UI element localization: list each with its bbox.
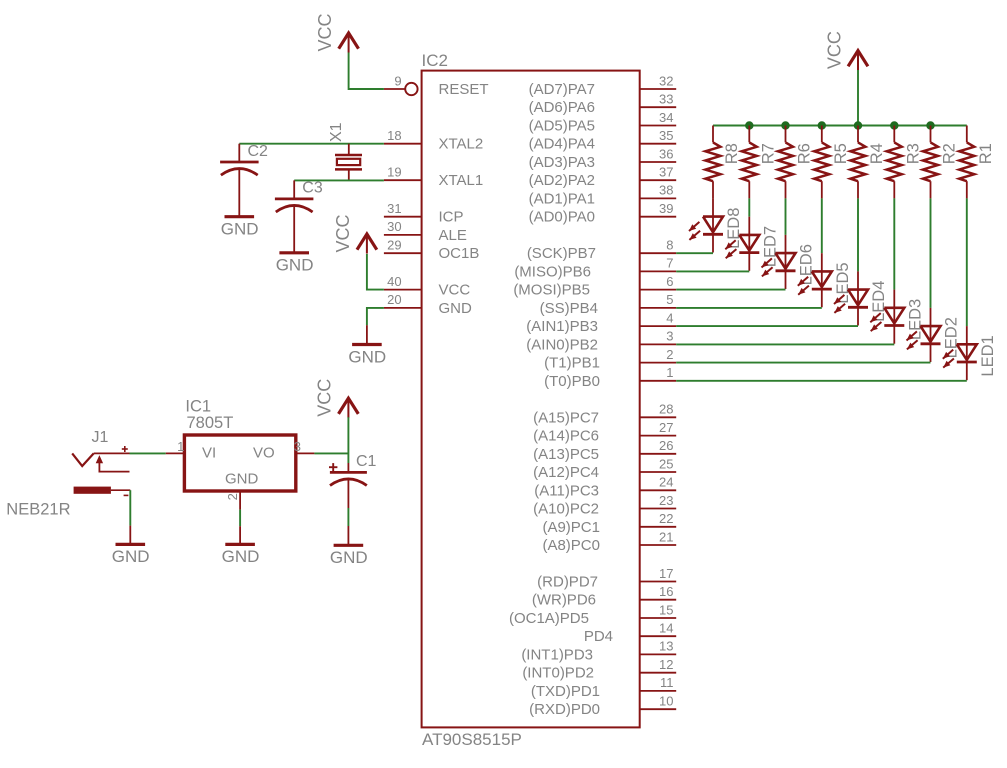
svg-text:(A13)PC5: (A13)PC5: [533, 446, 599, 463]
svg-text:16: 16: [659, 584, 673, 599]
svg-text:8: 8: [666, 238, 673, 253]
svg-text:VO: VO: [253, 444, 275, 461]
svg-text:(AD2)PA2: (AD2)PA2: [529, 172, 595, 189]
svg-text:AT90S8515P: AT90S8515P: [422, 730, 522, 749]
svg-text:X1: X1: [328, 122, 345, 142]
svg-text:NEB21R: NEB21R: [6, 501, 70, 519]
svg-text:(AD4)PA4: (AD4)PA4: [529, 136, 595, 153]
svg-text:GND: GND: [439, 300, 473, 317]
svg-text:VI: VI: [202, 444, 216, 461]
svg-text:23: 23: [659, 493, 673, 508]
svg-text:XTAL1: XTAL1: [439, 172, 484, 189]
svg-text:RESET: RESET: [439, 81, 489, 98]
svg-text:2: 2: [666, 347, 673, 362]
svg-text:15: 15: [659, 602, 673, 617]
svg-text:R5: R5: [832, 143, 850, 164]
svg-text:22: 22: [659, 511, 673, 526]
svg-text:1: 1: [666, 365, 673, 380]
svg-text:R8: R8: [723, 143, 741, 164]
svg-text:ICP: ICP: [439, 209, 464, 226]
svg-text:40: 40: [387, 274, 401, 289]
svg-text:28: 28: [659, 402, 673, 417]
svg-text:OC1B: OC1B: [439, 245, 480, 262]
svg-text:3: 3: [294, 439, 301, 454]
svg-text:12: 12: [659, 657, 673, 672]
svg-text:GND: GND: [225, 470, 259, 487]
svg-text:(AD0)PA0: (AD0)PA0: [529, 209, 595, 226]
svg-text:C1: C1: [356, 453, 377, 470]
svg-text:(A10)PC2: (A10)PC2: [533, 501, 599, 518]
svg-text:(A9)PC1: (A9)PC1: [542, 519, 600, 536]
svg-text:(SS)PB4: (SS)PB4: [540, 300, 598, 317]
svg-text:(AIN1)PB3: (AIN1)PB3: [526, 318, 598, 335]
svg-text:(SCK)PB7: (SCK)PB7: [527, 245, 596, 262]
svg-text:(T1)PB1: (T1)PB1: [544, 355, 600, 372]
svg-text:2: 2: [225, 493, 240, 500]
svg-text:(INT0)PD2: (INT0)PD2: [522, 665, 594, 682]
svg-text:VCC: VCC: [315, 379, 335, 417]
svg-text:GND: GND: [348, 347, 386, 366]
svg-text:33: 33: [659, 92, 673, 107]
svg-text:(AD6)PA6: (AD6)PA6: [529, 99, 595, 116]
svg-text:R1: R1: [977, 143, 995, 164]
svg-text:29: 29: [387, 238, 401, 253]
svg-text:GND: GND: [330, 548, 368, 567]
svg-text:(A12)PC4: (A12)PC4: [533, 464, 599, 481]
svg-text:VCC: VCC: [333, 214, 353, 252]
svg-text:10: 10: [659, 694, 673, 709]
svg-text:ALE: ALE: [439, 227, 467, 244]
svg-text:39: 39: [659, 201, 673, 216]
svg-text:7805T: 7805T: [187, 414, 234, 432]
svg-text:6: 6: [666, 274, 673, 289]
svg-text:13: 13: [659, 639, 673, 654]
svg-text:(RD)PD7: (RD)PD7: [537, 574, 598, 591]
svg-text:GND: GND: [112, 547, 150, 566]
svg-text:VCC: VCC: [824, 31, 844, 69]
svg-text:18: 18: [387, 128, 401, 143]
svg-text:(AD1)PA1: (AD1)PA1: [529, 190, 595, 207]
svg-text:1: 1: [177, 439, 184, 454]
svg-text:(AD5)PA5: (AD5)PA5: [529, 118, 595, 135]
svg-text:(A15)PC7: (A15)PC7: [533, 409, 599, 426]
svg-text:21: 21: [659, 529, 673, 544]
svg-text:20: 20: [387, 292, 401, 307]
svg-text:LED1: LED1: [979, 335, 997, 376]
svg-text:11: 11: [660, 675, 674, 690]
svg-text:(AD7)PA7: (AD7)PA7: [529, 81, 595, 98]
svg-text:14: 14: [659, 621, 673, 636]
svg-text:3: 3: [666, 329, 673, 344]
svg-text:(MISO)PB6: (MISO)PB6: [514, 263, 591, 280]
svg-text:38: 38: [659, 183, 673, 198]
svg-text:36: 36: [659, 146, 673, 161]
svg-text:(WR)PD6: (WR)PD6: [532, 592, 596, 609]
svg-text:34: 34: [659, 110, 673, 125]
svg-text:19: 19: [387, 165, 401, 180]
svg-text:(A11)PC3: (A11)PC3: [534, 482, 599, 499]
svg-text:GND: GND: [221, 220, 259, 239]
svg-text:IC1: IC1: [185, 398, 211, 416]
svg-text:5: 5: [666, 292, 673, 307]
svg-text:VCC: VCC: [315, 13, 335, 51]
svg-text:GND: GND: [222, 547, 260, 566]
svg-text:25: 25: [659, 456, 673, 471]
svg-text:(AIN0)PB2: (AIN0)PB2: [526, 336, 598, 353]
svg-text:(T0)PB0: (T0)PB0: [544, 373, 600, 390]
svg-text:35: 35: [659, 128, 673, 143]
svg-text:R2: R2: [941, 143, 959, 164]
svg-text:32: 32: [659, 73, 673, 88]
svg-text:C3: C3: [302, 180, 323, 197]
svg-text:R4: R4: [868, 143, 886, 164]
svg-text:30: 30: [387, 219, 401, 234]
svg-text:26: 26: [659, 438, 673, 453]
svg-text:J1: J1: [92, 429, 109, 446]
svg-text:R7: R7: [760, 143, 778, 164]
svg-text:R6: R6: [796, 143, 814, 164]
svg-text:(A8)PC0: (A8)PC0: [542, 537, 600, 554]
svg-text:(MOSI)PB5: (MOSI)PB5: [513, 282, 590, 299]
svg-text:R3: R3: [905, 143, 923, 164]
svg-text:IC2: IC2: [422, 51, 448, 70]
svg-text:(OC1A)PD5: (OC1A)PD5: [509, 610, 589, 627]
svg-text:PD4: PD4: [584, 628, 613, 645]
svg-text:(RXD)PD0: (RXD)PD0: [529, 701, 600, 718]
svg-text:(A14)PC6: (A14)PC6: [533, 428, 599, 445]
svg-text:17: 17: [659, 566, 673, 581]
svg-text:7: 7: [666, 256, 673, 271]
svg-text:(INT1)PD3: (INT1)PD3: [521, 646, 593, 663]
svg-text:31: 31: [387, 201, 401, 216]
svg-text:9: 9: [394, 73, 401, 88]
svg-text:(AD3)PA3: (AD3)PA3: [529, 154, 595, 171]
svg-text:37: 37: [659, 165, 673, 180]
svg-text:VCC: VCC: [439, 282, 471, 299]
svg-text:27: 27: [659, 420, 673, 435]
svg-text:4: 4: [666, 310, 673, 325]
svg-text:24: 24: [659, 475, 673, 490]
svg-text:GND: GND: [276, 256, 314, 275]
svg-text:C2: C2: [248, 143, 269, 160]
svg-text:(TXD)PD1: (TXD)PD1: [531, 683, 600, 700]
svg-text:XTAL2: XTAL2: [439, 136, 484, 153]
